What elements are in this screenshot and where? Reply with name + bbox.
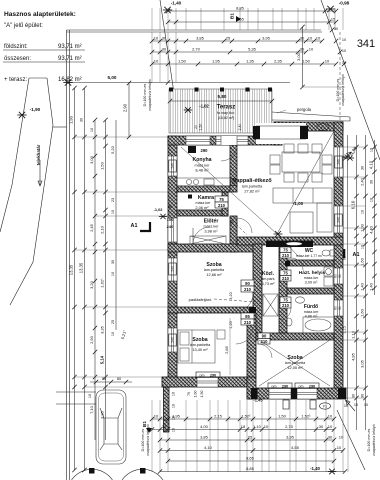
bed szoba2 bbox=[178, 330, 215, 363]
svg-text:8,65: 8,65 bbox=[236, 17, 245, 22]
svg-text:csapadékvíz lefolyó: csapadékvíz lefolyó bbox=[372, 424, 376, 455]
svg-text:25: 25 bbox=[248, 434, 253, 439]
window living right wall 2 bbox=[334, 206, 343, 233]
svg-text:210: 210 bbox=[244, 287, 252, 292]
svg-text:30: 30 bbox=[361, 166, 365, 170]
svg-text:4,10: 4,10 bbox=[369, 160, 374, 169]
window szoba2 bottom wall bbox=[197, 377, 218, 387]
roof dashes szoba3 X bbox=[259, 340, 330, 386]
svg-text:210: 210 bbox=[261, 339, 269, 344]
bottom dimension row 1 bbox=[152, 418, 334, 420]
window label living right 2 bbox=[335, 214, 342, 226]
svg-text:15: 15 bbox=[331, 18, 335, 22]
interior wall szoba2/szoba3 bbox=[247, 313, 256, 377]
svg-text:20: 20 bbox=[194, 125, 198, 129]
door szoba1 90/210 + arc bbox=[241, 280, 254, 292]
svg-text:-1,00: -1,00 bbox=[293, 201, 304, 206]
svg-text:F1: F1 bbox=[321, 126, 325, 130]
svg-text:90: 90 bbox=[338, 306, 342, 310]
svg-text:10: 10 bbox=[154, 36, 159, 41]
svg-text:210: 210 bbox=[282, 276, 290, 281]
svg-text:90: 90 bbox=[168, 204, 173, 209]
window szoba1 left wall bbox=[168, 258, 177, 281]
dimension row 8,65 bbox=[168, 21, 336, 23]
hazt washer bbox=[324, 267, 333, 276]
svg-text:240: 240 bbox=[337, 159, 341, 165]
svg-text:10: 10 bbox=[172, 404, 176, 408]
kitchen stove block bbox=[188, 146, 196, 153]
svg-text:"A" jelű épület:: "A" jelű épület: bbox=[4, 23, 43, 29]
svg-text:210: 210 bbox=[282, 253, 290, 258]
svg-text:10: 10 bbox=[364, 403, 368, 407]
svg-text:+ terasz:: + terasz: bbox=[4, 77, 28, 83]
svg-text:1,60: 1,60 bbox=[360, 308, 365, 317]
svg-text:csapadékvíz lefolyó: csapadékvíz lefolyó bbox=[148, 79, 152, 110]
svg-text:341: 341 bbox=[357, 38, 375, 50]
svg-text:pm: pm bbox=[299, 385, 304, 389]
window hazt right wall bbox=[334, 268, 343, 284]
big opening terrace to living bbox=[256, 123, 306, 144]
svg-text:10: 10 bbox=[328, 424, 333, 429]
svg-text:30: 30 bbox=[361, 394, 365, 398]
svg-text:4,96 m²: 4,96 m² bbox=[305, 315, 319, 319]
svg-text:30: 30 bbox=[370, 180, 374, 184]
svg-text:75: 75 bbox=[283, 297, 288, 302]
svg-text:(16,82 m²): (16,82 m²) bbox=[218, 116, 235, 120]
svg-text:Konyha: Konyha bbox=[192, 157, 211, 163]
svg-text:290: 290 bbox=[210, 374, 216, 378]
svg-text:100: 100 bbox=[167, 217, 174, 222]
pergola outline bbox=[272, 112, 350, 121]
svg-text:10: 10 bbox=[264, 424, 269, 429]
svg-text:60: 60 bbox=[334, 306, 338, 310]
svg-text:1,50: 1,50 bbox=[178, 59, 187, 64]
door eloter to living arc bbox=[237, 218, 252, 233]
interior wall kamra/eloter bbox=[177, 210, 228, 216]
post black left bbox=[253, 126, 260, 139]
svg-text:12,05 m²: 12,05 m² bbox=[287, 365, 303, 370]
chimney / tv wall block bbox=[266, 241, 313, 248]
right dimension chain lines bbox=[347, 135, 349, 400]
left dimension chain lines bbox=[74, 88, 76, 470]
svg-text:3,09 m²: 3,09 m² bbox=[305, 281, 319, 285]
exterior wall top (living side) bbox=[274, 122, 343, 131]
neighbour parcel strip (tapered) bbox=[0, 78, 67, 305]
svg-text:2,10: 2,10 bbox=[100, 225, 105, 234]
post black right bbox=[300, 126, 308, 139]
svg-text:7,10: 7,10 bbox=[89, 405, 94, 414]
svg-text:1,13: 1,13 bbox=[351, 330, 356, 339]
svg-text:30: 30 bbox=[352, 394, 356, 398]
svg-text:földszint:: földszint: bbox=[4, 44, 28, 50]
svg-text:75: 75 bbox=[219, 197, 224, 202]
roof valley node bbox=[274, 231, 283, 237]
svg-text:D=100 mm-es: D=100 mm-es bbox=[141, 428, 145, 451]
window szoba3 bottom wall 2 bbox=[297, 388, 317, 399]
svg-text:210: 210 bbox=[244, 320, 252, 325]
svg-text:1,90: 1,90 bbox=[69, 115, 74, 124]
svg-text:csapadékvíz lefolyó: csapadékvíz lefolyó bbox=[146, 424, 150, 455]
svg-text:pergola: pergola bbox=[297, 107, 312, 112]
gate posts bbox=[89, 468, 95, 474]
entrance door arc bbox=[193, 227, 210, 244]
dimension row 8,85 bbox=[168, 10, 336, 12]
sofa bbox=[273, 188, 332, 203]
svg-text:-1,40: -1,40 bbox=[310, 466, 321, 471]
svg-text:10: 10 bbox=[354, 403, 358, 407]
svg-text:padlásfeljáró: padlásfeljáró bbox=[189, 297, 212, 302]
svg-text:27,82 m²: 27,82 m² bbox=[244, 189, 260, 194]
roof line to szoba3 bbox=[277, 234, 298, 256]
roof valley line right bbox=[277, 131, 334, 234]
window label szoba2 left bbox=[169, 334, 176, 346]
window kitchen left wall bbox=[168, 156, 177, 176]
window eloter left wall bbox=[168, 218, 177, 242]
furdo wc bbox=[286, 318, 292, 326]
svg-text:2,40: 2,40 bbox=[238, 124, 242, 131]
svg-text:8,85: 8,85 bbox=[246, 466, 255, 471]
svg-text:1,62⁵: 1,62⁵ bbox=[100, 278, 105, 288]
svg-text:Hasznos alapterületek:: Hasznos alapterületek: bbox=[4, 11, 76, 18]
svg-text:90: 90 bbox=[262, 333, 267, 338]
interior wall kitchen/living bbox=[230, 145, 237, 192]
door kamra 75/210 bbox=[215, 196, 228, 208]
left chain ticks bbox=[72, 86, 76, 90]
svg-text:1,95: 1,95 bbox=[172, 413, 181, 418]
svg-text:mász.ker: mász.ker bbox=[304, 276, 319, 280]
svg-text:D=100 mm-es: D=100 mm-es bbox=[143, 83, 147, 106]
svg-text:1,50: 1,50 bbox=[100, 161, 105, 170]
window szoba2 left wall bbox=[168, 328, 177, 352]
exterior wall bottom left bbox=[162, 377, 247, 387]
svg-text:10: 10 bbox=[370, 148, 374, 152]
svg-text:10: 10 bbox=[342, 38, 346, 42]
exterior wall top (kitchen side) bbox=[168, 136, 282, 145]
svg-text:A1: A1 bbox=[131, 223, 138, 229]
svg-text:25: 25 bbox=[111, 320, 115, 324]
svg-text:10: 10 bbox=[172, 392, 176, 396]
svg-text:3,00: 3,00 bbox=[89, 155, 94, 164]
door szoba3 90/210 + arc bbox=[258, 333, 270, 344]
svg-text:75: 75 bbox=[283, 270, 288, 275]
bottom dimension row 3 bbox=[160, 439, 334, 441]
telekhatar arrow bbox=[38, 160, 42, 186]
svg-text:4,10: 4,10 bbox=[204, 445, 213, 450]
svg-text:210: 210 bbox=[218, 203, 226, 208]
setback dimension 2,90 bbox=[128, 83, 130, 137]
window labels bottom szoba2 bbox=[196, 372, 220, 378]
svg-text:1,50: 1,50 bbox=[302, 59, 311, 64]
svg-text:30: 30 bbox=[80, 118, 84, 122]
svg-text:1,52⁵: 1,52⁵ bbox=[241, 413, 251, 418]
column between szoba3 windows bbox=[291, 388, 297, 399]
svg-text:60: 60 bbox=[334, 274, 338, 278]
kitchen counter bbox=[177, 178, 230, 186]
survey point -1,40 bbox=[163, 7, 172, 13]
svg-text:A1: A1 bbox=[353, 252, 360, 258]
survey point -1,90 bbox=[17, 112, 26, 118]
svg-text:10: 10 bbox=[88, 394, 92, 398]
svg-text:2,90: 2,90 bbox=[123, 103, 128, 112]
street edge diagonal top-right bbox=[321, 0, 380, 160]
svg-text:5,14: 5,14 bbox=[100, 355, 105, 364]
svg-text:10: 10 bbox=[328, 413, 333, 418]
window label living right 1 bbox=[335, 156, 342, 168]
svg-text:8,65: 8,65 bbox=[246, 455, 255, 460]
svg-text:csapadékvíz lefolyó: csapadékvíz lefolyó bbox=[341, 74, 345, 105]
svg-text:80: 80 bbox=[117, 377, 121, 381]
svg-text:5,80: 5,80 bbox=[218, 94, 227, 99]
svg-text:3,85: 3,85 bbox=[200, 434, 209, 439]
left horizontal connectors bbox=[75, 136, 169, 138]
site boundary line (top, double) bbox=[67, 30, 323, 32]
szoba2 nightstand bbox=[217, 330, 225, 339]
column wc corner bbox=[285, 261, 290, 266]
wc toilet bbox=[322, 250, 330, 256]
interior wall eloter/szoba1 bbox=[168, 244, 262, 252]
svg-text:1,50: 1,50 bbox=[199, 124, 203, 131]
entrance walkway lines bbox=[56, 392, 96, 404]
svg-text:10: 10 bbox=[361, 245, 365, 249]
svg-text:1,35: 1,35 bbox=[246, 59, 255, 64]
corner leader arrow bottom right bbox=[346, 400, 356, 411]
furdo sink bbox=[296, 297, 305, 303]
svg-text:1,50: 1,50 bbox=[200, 391, 204, 398]
coffee table bbox=[290, 212, 313, 233]
svg-text:Terasz: Terasz bbox=[217, 105, 236, 111]
svg-text:210: 210 bbox=[282, 303, 290, 308]
terrace labels bbox=[170, 100, 272, 102]
svg-text:5,00: 5,00 bbox=[108, 75, 117, 80]
interior wall hall/wet rooms bbox=[279, 245, 287, 333]
svg-text:2,70: 2,70 bbox=[192, 47, 201, 52]
svg-text:összesen:: összesen: bbox=[4, 56, 31, 62]
exterior wall right bbox=[334, 122, 343, 390]
svg-text:3,85: 3,85 bbox=[196, 36, 205, 41]
svg-text:3,35: 3,35 bbox=[100, 410, 105, 419]
rain pipe leader dashed bbox=[339, 32, 341, 122]
street edge diagonal bottom-right bbox=[337, 410, 365, 470]
svg-text:-1,02: -1,02 bbox=[199, 104, 209, 109]
svg-text:240: 240 bbox=[337, 217, 341, 223]
dimension row 2,70 / 5,35 bbox=[152, 51, 306, 53]
svg-text:4,85: 4,85 bbox=[351, 352, 356, 361]
svg-text:10: 10 bbox=[172, 428, 176, 432]
svg-text:1,40: 1,40 bbox=[369, 282, 374, 291]
svg-text:240: 240 bbox=[171, 266, 175, 272]
svg-text:10: 10 bbox=[154, 413, 159, 418]
svg-text:1,60: 1,60 bbox=[194, 391, 198, 398]
svg-text:1,00: 1,00 bbox=[360, 223, 365, 232]
attic ladder in hall bbox=[263, 294, 278, 316]
north arrow line bbox=[340, 152, 351, 164]
svg-text:3,35: 3,35 bbox=[100, 325, 105, 334]
svg-text:5,20: 5,20 bbox=[110, 145, 115, 154]
svg-text:95: 95 bbox=[245, 314, 250, 319]
downpipe circle F1 bottom bbox=[320, 403, 331, 409]
svg-text:10: 10 bbox=[308, 36, 313, 41]
svg-text:1,52⁵: 1,52⁵ bbox=[301, 413, 311, 418]
street corner diagonal top-left bbox=[160, 0, 174, 93]
svg-text:30: 30 bbox=[162, 36, 167, 41]
roof valley line left bbox=[181, 147, 277, 234]
car dimension ticks bbox=[90, 381, 132, 383]
svg-text:lam.park.: lam.park. bbox=[261, 277, 276, 281]
svg-text:2,75: 2,75 bbox=[285, 424, 294, 429]
svg-text:10: 10 bbox=[370, 198, 374, 202]
svg-text:-1,90: -1,90 bbox=[30, 107, 41, 112]
svg-text:F1: F1 bbox=[323, 405, 327, 409]
bottom dimension row 4 bbox=[160, 450, 343, 452]
interior wall under living (WC row) bbox=[237, 237, 343, 245]
svg-text:13,35: 13,35 bbox=[79, 262, 84, 273]
bottom dimension row 8,65 bbox=[168, 460, 334, 462]
terrace edge posts bbox=[169, 88, 173, 92]
svg-text:10: 10 bbox=[325, 59, 330, 64]
svg-text:30: 30 bbox=[111, 260, 115, 264]
svg-text:10: 10 bbox=[316, 36, 321, 41]
svg-text:B1: B1 bbox=[230, 13, 235, 19]
svg-text:D=100 mm-es: D=100 mm-es bbox=[336, 78, 340, 101]
interior wall wc/hazt bbox=[287, 260, 334, 266]
interior wall hazt/furdo bbox=[287, 288, 334, 294]
kitchen terrace door + arc bbox=[221, 136, 237, 145]
interior wall eloter/living bbox=[230, 216, 237, 252]
survey point -0,98 bbox=[326, 6, 335, 12]
svg-text:93,71 m²: 93,71 m² bbox=[58, 44, 82, 50]
exterior wall bottom right bbox=[247, 388, 346, 399]
bottom dimension row 2 bbox=[152, 429, 334, 431]
dimension line 5,00 to boundary bbox=[68, 82, 290, 84]
dimension row walls bbox=[152, 40, 322, 42]
interior wall furdo/szoba3 bbox=[256, 333, 334, 340]
right chain ticks bbox=[354, 145, 358, 149]
svg-text:Nappali-étkező: Nappali-étkező bbox=[232, 178, 272, 184]
window label szoba1 left bbox=[169, 263, 176, 275]
parked car bbox=[96, 390, 126, 464]
door wc 75/210 bbox=[280, 247, 291, 258]
column hall corner bbox=[249, 307, 256, 313]
wall step between terrace and living bbox=[274, 122, 282, 145]
svg-text:1,10: 1,10 bbox=[253, 424, 262, 429]
svg-text:30: 30 bbox=[319, 424, 324, 429]
interior wall kitchen/kamra bbox=[177, 186, 230, 192]
svg-text:pm: pm bbox=[272, 385, 277, 389]
svg-text:3,95: 3,95 bbox=[262, 36, 271, 41]
fence wall stub below building bbox=[164, 387, 170, 432]
svg-text:13,40 m²: 13,40 m² bbox=[192, 347, 208, 352]
interior wall szoba1/szoba2 bbox=[168, 307, 253, 313]
svg-text:290: 290 bbox=[201, 148, 209, 153]
svg-text:3,98 m²: 3,98 m² bbox=[204, 229, 218, 234]
svg-text:1,95: 1,95 bbox=[212, 59, 221, 64]
bottom extension lines bbox=[151, 400, 153, 472]
svg-text:8,48 m²: 8,48 m² bbox=[195, 168, 209, 173]
svg-text:240: 240 bbox=[171, 337, 175, 343]
window furdo right wall bbox=[334, 300, 343, 316]
svg-text:290: 290 bbox=[282, 385, 288, 389]
svg-text:2,35: 2,35 bbox=[274, 59, 283, 64]
svg-text:90: 90 bbox=[338, 274, 342, 278]
window label kitchen left bbox=[169, 160, 176, 172]
window szoba3 bottom wall 1 bbox=[269, 388, 291, 399]
svg-text:-1,02: -1,02 bbox=[154, 207, 164, 212]
svg-text:23: 23 bbox=[111, 198, 115, 202]
top dimension extension lines bbox=[151, 8, 153, 30]
svg-text:4,73 m²: 4,73 m² bbox=[262, 282, 276, 286]
svg-text:93,71 m²: 93,71 m² bbox=[58, 56, 82, 62]
svg-text:6,10: 6,10 bbox=[351, 200, 356, 209]
furdo bathtub bbox=[303, 317, 334, 333]
svg-text:30: 30 bbox=[334, 27, 338, 31]
dining table bbox=[282, 152, 320, 172]
column szoba3 bottom left bbox=[251, 388, 258, 399]
svg-text:4,55: 4,55 bbox=[291, 445, 300, 450]
svg-text:2,85: 2,85 bbox=[224, 345, 229, 354]
svg-text:1,60: 1,60 bbox=[360, 257, 365, 266]
svg-text:1,50: 1,50 bbox=[278, 413, 287, 418]
svg-text:2,90: 2,90 bbox=[89, 335, 94, 344]
svg-text:3,00: 3,00 bbox=[296, 52, 301, 61]
svg-text:D=100 mm-es: D=100 mm-es bbox=[367, 428, 371, 451]
dimension row openings bbox=[152, 63, 336, 65]
lintel label F1 bbox=[317, 124, 329, 131]
svg-text:-1,40: -1,40 bbox=[171, 1, 182, 6]
door furdo 75/210 bbox=[280, 297, 291, 308]
svg-text:70: 70 bbox=[187, 392, 191, 396]
svg-text:fa map bur.: fa map bur. bbox=[217, 111, 235, 115]
svg-text:3,20: 3,20 bbox=[229, 292, 233, 299]
svg-text:290: 290 bbox=[309, 385, 315, 389]
svg-text:240: 240 bbox=[167, 224, 174, 229]
svg-text:30: 30 bbox=[162, 424, 167, 429]
svg-text:4,00: 4,00 bbox=[200, 424, 209, 429]
window living right wall 1 bbox=[334, 147, 343, 177]
extension lines between boundary and building top bbox=[151, 32, 153, 82]
site boundary line (left, double) bbox=[67, 30, 70, 480]
svg-text:30: 30 bbox=[328, 434, 333, 439]
svg-text:12,66 m²: 12,66 m² bbox=[206, 272, 222, 277]
svg-text:25: 25 bbox=[226, 36, 231, 41]
svg-text:4,40: 4,40 bbox=[369, 225, 374, 234]
column bottom right corner bbox=[338, 388, 346, 399]
svg-text:10: 10 bbox=[111, 272, 115, 276]
svg-text:10: 10 bbox=[342, 49, 346, 53]
svg-text:240: 240 bbox=[171, 163, 175, 169]
svg-text:pm: pm bbox=[200, 374, 205, 378]
svg-text:1,20: 1,20 bbox=[229, 321, 233, 328]
terrace deck bbox=[169, 89, 272, 133]
svg-text:mász.ker: mász.ker bbox=[304, 310, 319, 314]
wall step bottom middle bbox=[247, 377, 256, 399]
interior wall kamra right bbox=[222, 192, 228, 216]
terrace door opening top wall bbox=[216, 136, 248, 145]
dining chairs bbox=[284, 144, 294, 153]
svg-text:8,85: 8,85 bbox=[236, 6, 245, 11]
interior wall hall left bbox=[253, 244, 262, 333]
svg-text:5,35: 5,35 bbox=[248, 47, 257, 52]
svg-text:2,45: 2,45 bbox=[89, 223, 94, 232]
svg-text:10: 10 bbox=[154, 59, 159, 64]
H mark kitchen bbox=[231, 179, 238, 186]
ticks on street diagonal bbox=[323, 9, 327, 13]
svg-text:10: 10 bbox=[111, 332, 115, 336]
svg-text:13,35: 13,35 bbox=[69, 264, 74, 275]
svg-text:-0,98: -0,98 bbox=[339, 1, 350, 6]
svg-text:2,06 m²: 2,06 m² bbox=[195, 205, 209, 210]
svg-text:10: 10 bbox=[337, 445, 342, 450]
svg-text:1,40: 1,40 bbox=[360, 282, 365, 291]
